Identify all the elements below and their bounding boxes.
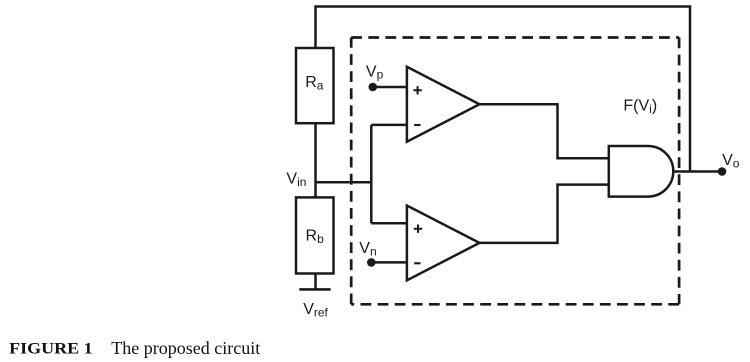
label op-amp U1 plus input bbox=[413, 86, 421, 94]
wire Rb bottom to Vref terminal bbox=[314, 274, 317, 290]
svg-text:Vo: Vo bbox=[722, 152, 740, 170]
wire op-amp U1 output to AND gate input bbox=[480, 104, 609, 158]
svg-text:Vref: Vref bbox=[303, 301, 328, 319]
wire node Vin horizontal bbox=[316, 181, 372, 184]
svg-text:Vn: Vn bbox=[359, 240, 376, 258]
wire input bus vertical bbox=[370, 125, 373, 223]
node Vn dot bbox=[367, 258, 376, 267]
label op-amp U1 minus input bbox=[414, 124, 420, 126]
node Vo dot bbox=[718, 167, 727, 176]
svg-text:F(Vi): F(Vi) bbox=[623, 98, 657, 116]
svg-text:Vin: Vin bbox=[286, 171, 306, 189]
wire op-amp U2 output to AND gate input bbox=[480, 185, 609, 243]
wire Vp to op-amp U1 non-inverting input bbox=[374, 86, 407, 89]
wire Ra bottom to Rb top through node Vin bbox=[314, 123, 317, 197]
AND gate U3 bbox=[609, 146, 674, 197]
label op-amp U2 plus input bbox=[414, 225, 422, 233]
resistor Rb bbox=[296, 197, 334, 273]
dashed box F(Vi) block right edge bbox=[678, 38, 681, 305]
label op-amp U2 minus input bbox=[414, 262, 420, 264]
dashed box F(Vi) block top edge bbox=[351, 36, 679, 39]
wire op-amp U1 inverting input bbox=[371, 124, 407, 127]
svg-text:Vp: Vp bbox=[366, 63, 384, 81]
op-amp U2 comparator bbox=[407, 206, 480, 281]
dashed box F(Vi) block bottom edge bbox=[351, 303, 679, 306]
terminal Vref bar bbox=[299, 288, 330, 291]
op-amp U1 comparator bbox=[407, 67, 480, 142]
wire AND gate output to node Vo bbox=[673, 170, 722, 173]
resistor Ra bbox=[296, 48, 334, 123]
svg-text:FIGURE 1: FIGURE 1 bbox=[9, 341, 93, 358]
wire Vn to op-amp U2 inverting input bbox=[374, 261, 407, 264]
dashed box F(Vi) block left edge bbox=[350, 38, 353, 305]
svg-text:The proposed circuit: The proposed circuit bbox=[111, 338, 260, 358]
wire feedback from Vo to top of Ra bbox=[316, 7, 691, 172]
wire op-amp U2 non-inverting input bbox=[371, 222, 407, 225]
node Vp dot bbox=[369, 83, 378, 92]
